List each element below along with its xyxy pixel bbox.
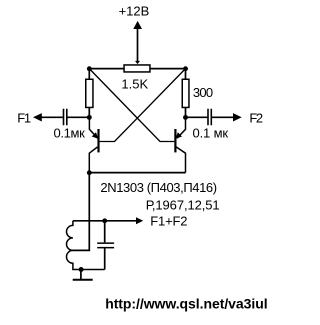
svg-text:1.5K: 1.5K xyxy=(121,76,148,91)
svg-text:http://www.qsl.net/va3iul: http://www.qsl.net/va3iul xyxy=(105,295,267,311)
svg-text:F2: F2 xyxy=(249,111,263,126)
svg-text:2N1303 (П403,П416): 2N1303 (П403,П416) xyxy=(100,180,216,195)
svg-text:300: 300 xyxy=(193,85,213,100)
svg-text:0.1 мк: 0.1 мк xyxy=(193,126,229,141)
svg-text:F1: F1 xyxy=(17,111,31,126)
svg-text:0.1мк: 0.1мк xyxy=(54,126,86,141)
svg-text:Р,1967,12,51: Р,1967,12,51 xyxy=(146,197,220,212)
svg-text:+12В: +12В xyxy=(119,4,150,19)
svg-text:F1+F2: F1+F2 xyxy=(150,213,187,228)
